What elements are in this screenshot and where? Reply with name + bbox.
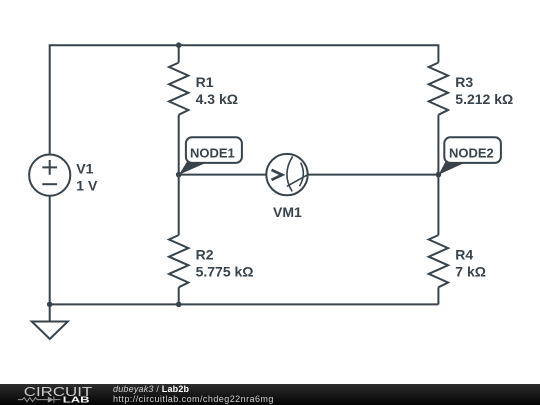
node NODE2 callout box	[444, 137, 501, 163]
junction dot R2 bottom	[176, 302, 182, 308]
resistor R4	[429, 235, 448, 287]
wire bottom rail	[50, 303, 439, 305]
wire R1 bottom to NODE1	[178, 115, 180, 175]
resistor R3	[429, 63, 448, 115]
svg-text:5.775 kΩ: 5.775 kΩ	[196, 263, 254, 279]
junction dot NODE2	[436, 172, 442, 178]
svg-text:dubeyak3 / Lab2b: dubeyak3 / Lab2b	[113, 384, 190, 394]
junction dot NODE1	[176, 172, 182, 178]
junction dot ground	[47, 302, 53, 308]
wire R4 bottom to bottom rail	[437, 287, 439, 304]
wire R3 bottom to NODE2	[437, 115, 439, 175]
logo diode bar	[53, 397, 55, 403]
voltmeter VM1 circle	[266, 154, 307, 195]
svg-text:4.3 kΩ: 4.3 kΩ	[196, 91, 238, 107]
node NODE1 callout tail	[179, 162, 209, 175]
svg-text:7 kΩ: 7 kΩ	[455, 263, 486, 279]
logo squiggle resistor wire	[18, 397, 61, 403]
wire R2 bottom to bottom rail	[178, 287, 180, 304]
resistor R1	[169, 63, 188, 115]
wire NODE2 to R4 top	[437, 175, 439, 236]
svg-text:R2: R2	[196, 246, 214, 262]
svg-text:NODE2: NODE2	[449, 145, 494, 160]
VM1 arrow glyph	[272, 170, 283, 180]
svg-text:1 V: 1 V	[76, 178, 98, 194]
wire top loop: V1 top to R1/R3 top	[50, 45, 439, 154]
ground symbol triangle	[32, 322, 68, 340]
wire NODE1 to VM1 left	[179, 174, 267, 176]
svg-text:R3: R3	[455, 74, 473, 90]
svg-text:R4: R4	[455, 246, 473, 262]
VM1 meter arc left	[287, 156, 293, 191]
VM1 meter needle	[287, 175, 308, 187]
V1 plus sign	[42, 160, 57, 175]
resistor R2	[169, 235, 188, 287]
svg-text:VM1: VM1	[273, 204, 302, 220]
svg-text:NODE1: NODE1	[190, 145, 235, 160]
junction dot top R1	[176, 42, 182, 48]
svg-text:5.212 kΩ: 5.212 kΩ	[455, 91, 513, 107]
wire VM1 right to NODE2	[308, 174, 439, 176]
svg-text:http://circuitlab.com/chdeg22n: http://circuitlab.com/chdeg22nra6mg	[113, 394, 274, 404]
node NODE1 callout box	[186, 137, 242, 163]
wire R1 top stub	[178, 45, 180, 62]
svg-text:R1: R1	[196, 74, 214, 90]
wire NODE1 to R2 top	[178, 175, 180, 236]
svg-text:LAB: LAB	[63, 395, 90, 404]
ground stub wire	[49, 304, 51, 321]
node NODE2 callout tail	[439, 162, 467, 175]
logo diode triangle	[48, 397, 54, 403]
V1 minus sign	[42, 183, 57, 185]
svg-text:V1: V1	[76, 161, 93, 177]
VM1 meter arc right	[299, 163, 303, 187]
wire V1 bottom to bottom rail	[49, 196, 51, 305]
voltage source V1 circle	[29, 155, 70, 196]
